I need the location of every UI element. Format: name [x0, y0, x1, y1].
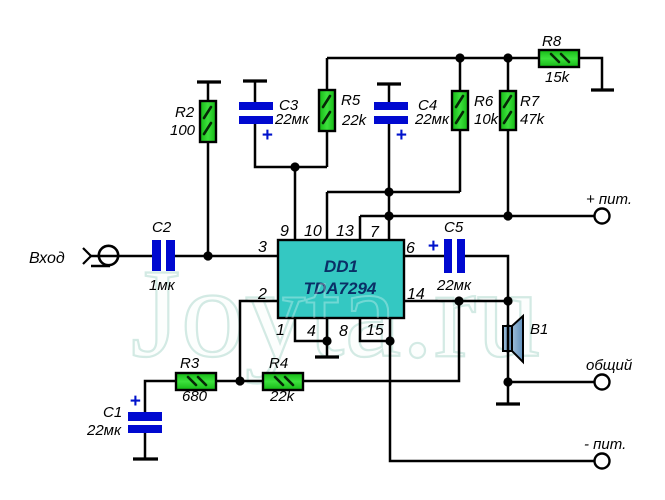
capacitor C1 [128, 412, 162, 433]
wire pin 9 riser [294, 167, 297, 240]
svg-text:22мк: 22мк [436, 277, 472, 294]
ground below pin 4 [315, 341, 339, 357]
svg-text:+ пит.: + пит. [586, 191, 632, 208]
resistor R8 [539, 50, 579, 67]
capacitor C3 [239, 102, 273, 124]
node speaker ground junction [503, 377, 512, 386]
wire pins 1 4 to ground [295, 318, 327, 341]
ground below speaker [496, 382, 520, 404]
node pin7 supply junction [384, 211, 393, 220]
svg-text:22мк: 22мк [274, 111, 310, 128]
svg-text:1мк: 1мк [149, 277, 176, 294]
svg-text:R4: R4 [269, 355, 288, 372]
node R7 supply junction [503, 211, 512, 220]
svg-text:B1: B1 [530, 321, 548, 338]
node R6 top junction [455, 53, 464, 62]
wire C3 bottom to node [255, 124, 327, 167]
svg-text:15: 15 [366, 322, 384, 339]
wire R6 top riser [459, 58, 462, 91]
svg-text:10: 10 [304, 223, 322, 240]
ground above R2 [197, 82, 221, 101]
node C4 bottom junction [384, 187, 393, 196]
node input R2 junction [203, 251, 212, 260]
svg-text:22k: 22k [269, 388, 296, 405]
capacitor C4 [374, 102, 408, 124]
wire R5 bottom riser [326, 131, 329, 167]
svg-text:6: 6 [406, 240, 415, 257]
wire R7 top riser [507, 58, 510, 91]
wire pin 10 riser [326, 192, 329, 240]
svg-text:C5: C5 [444, 219, 464, 236]
wire pin 15 to negative rail [390, 341, 594, 461]
svg-text:100: 100 [170, 122, 196, 139]
svg-text:Вход: Вход [29, 250, 65, 267]
svg-text:R6: R6 [474, 93, 494, 110]
ground below C1 [133, 433, 158, 459]
node output speaker junction [503, 296, 512, 305]
svg-text:R2: R2 [175, 104, 195, 121]
terminal - пит. [595, 454, 610, 469]
svg-text:R7: R7 [520, 93, 540, 110]
wire R6 bottom riser [459, 130, 462, 192]
svg-text:+: + [261, 125, 272, 146]
node output feedback junction [454, 296, 463, 305]
wire top rail [327, 57, 539, 60]
speaker B1 [503, 316, 523, 362]
wire R7 bottom riser [507, 130, 510, 216]
svg-text:680: 680 [182, 388, 208, 405]
wire C5 right to output [465, 256, 508, 301]
svg-text:10k: 10k [474, 111, 500, 128]
wire pins 8 15 [360, 318, 390, 341]
svg-text:R3: R3 [180, 355, 200, 372]
resistor R6 [452, 91, 468, 130]
svg-text:общий: общий [586, 357, 633, 374]
svg-text:C1: C1 [103, 404, 122, 421]
wire R4 right to output riser [303, 301, 459, 381]
wire pin 14 output [404, 300, 508, 303]
wire pin 13 riser [359, 216, 362, 240]
wire C2 to pin 3 [175, 255, 278, 258]
wire mute net y192 [327, 191, 460, 194]
svg-text:15k: 15k [545, 69, 571, 86]
svg-text:47k: 47k [520, 111, 546, 128]
wire R3 left to C1 [145, 381, 176, 412]
svg-text:+: + [427, 236, 438, 257]
svg-text:22k: 22k [341, 112, 368, 129]
resistor R3 [176, 373, 216, 390]
svg-text:22мк: 22мк [414, 111, 450, 128]
svg-text:+: + [395, 125, 406, 146]
resistor R2 [200, 101, 216, 142]
ground above C4 [377, 84, 401, 103]
svg-text:7: 7 [370, 224, 380, 241]
ground at R8 [591, 88, 614, 91]
terminal общий [595, 375, 610, 390]
svg-text:3: 3 [258, 239, 267, 256]
wire speaker to common [508, 351, 594, 382]
wire R5 top riser [326, 58, 329, 90]
wire R3 to R4 [216, 380, 263, 383]
connector X1 input jack [83, 246, 152, 266]
svg-text:- пит.: - пит. [584, 436, 626, 453]
node feedback junction [235, 376, 244, 385]
svg-text:+: + [129, 391, 140, 412]
svg-text:R5: R5 [341, 92, 361, 109]
capacitor C5 [444, 239, 465, 273]
wire pin 6 to C5 [404, 255, 444, 258]
wire positive supply rail y216 [360, 215, 594, 218]
wire C4 bottom and pin 7 riser [388, 124, 391, 240]
node R7 top junction [503, 53, 512, 62]
resistor R7 [500, 91, 516, 130]
svg-text:8: 8 [339, 323, 348, 340]
svg-text:13: 13 [336, 223, 354, 240]
resistor R4 [263, 373, 303, 390]
svg-text:22мк: 22мк [86, 422, 122, 439]
capacitor C2 [152, 240, 175, 271]
wire output to speaker [507, 301, 510, 326]
wire R8 right to ground [579, 58, 602, 89]
svg-text:4: 4 [307, 323, 316, 340]
wire pin 2 to feedback node [240, 301, 278, 381]
node pin4 ground junction [322, 336, 331, 345]
terminal + пит. [595, 209, 610, 224]
svg-text:C2: C2 [152, 219, 172, 236]
node C3 R5 pin9 junction [290, 162, 299, 171]
svg-text:9: 9 [280, 223, 289, 240]
svg-text:1: 1 [276, 322, 285, 339]
wire R2 bottom riser [207, 142, 210, 256]
ground above C3 [243, 81, 267, 102]
op-amp DD1 TDA7294 [278, 240, 404, 318]
wire through speaker [507, 324, 510, 353]
resistor R5 [319, 90, 335, 131]
node pin15 junction [385, 336, 394, 345]
svg-text:R8: R8 [542, 33, 562, 50]
